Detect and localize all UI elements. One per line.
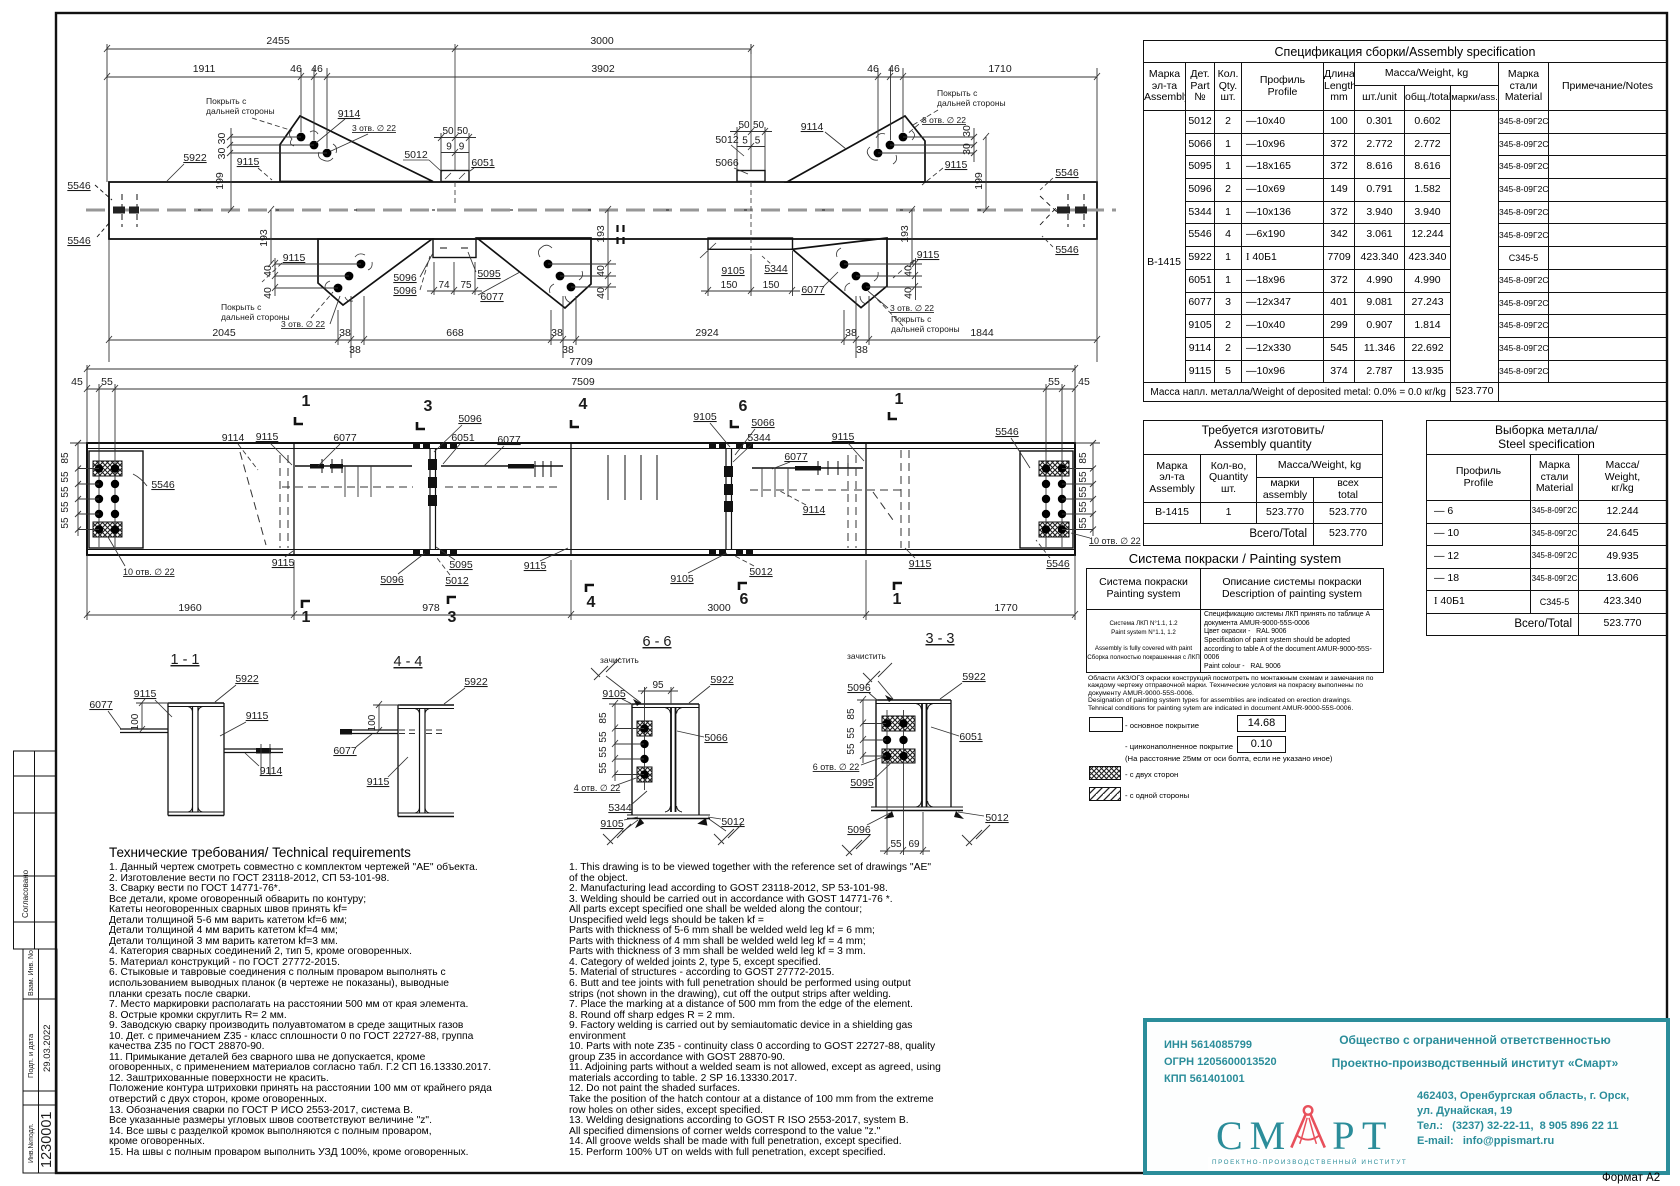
dim 55|69 bottom xyxy=(880,812,930,855)
svg-text:2455: 2455 xyxy=(266,35,290,47)
svg-text:4: 4 xyxy=(579,396,588,413)
svg-text:3: 3 xyxy=(424,398,433,415)
section line thru plate 5012 xyxy=(454,44,456,170)
svg-text:1: 1 xyxy=(895,391,904,408)
svg-text:5096: 5096 xyxy=(393,285,417,297)
right 193 vertical dim xyxy=(911,210,913,264)
bolt pads 6-6 xyxy=(637,721,652,736)
bolt pads 3-3 xyxy=(882,716,915,731)
svg-text:29.03.2022: 29.03.2022 xyxy=(42,1024,53,1072)
leader lines top drawing xyxy=(167,110,1053,326)
zinc coat legend xyxy=(1125,742,1233,751)
painting notes xyxy=(1088,675,1388,712)
svg-text:2924: 2924 xyxy=(695,327,719,339)
svg-text:Покрыть с: Покрыть с xyxy=(221,302,262,312)
svg-text:Покрыть с: Покрыть с xyxy=(206,96,247,106)
lower-center gusset bolts xyxy=(544,260,576,292)
lower-right gusset bolts xyxy=(840,260,871,291)
svg-text:55: 55 xyxy=(1048,376,1060,388)
rib 6077 left xyxy=(340,729,398,731)
svg-text:9105: 9105 xyxy=(693,411,717,423)
svg-text:5012: 5012 xyxy=(404,149,428,161)
text labels top drawing xyxy=(67,88,1079,334)
svg-text:1230001: 1230001 xyxy=(39,1112,55,1168)
short weld ticks crossing rib mid-left xyxy=(345,0,1345,497)
svg-text:6: 6 xyxy=(739,398,748,415)
svg-text:3 - 3: 3 - 3 xyxy=(925,631,954,647)
legend: base coat sample box xyxy=(1089,717,1123,732)
svg-text:9114: 9114 xyxy=(222,432,245,444)
svg-text:5095: 5095 xyxy=(449,559,473,571)
svg-text:40: 40 xyxy=(903,287,915,299)
lower-left gusset bolts xyxy=(334,260,366,293)
rib 6077 plan segment c xyxy=(752,467,863,469)
svg-text:6077: 6077 xyxy=(333,432,357,444)
left end plate 5546 outline xyxy=(89,451,143,548)
svg-text:9115: 9115 xyxy=(917,249,940,261)
svg-text:9105: 9105 xyxy=(600,818,624,830)
right 30/30 vertical dim xyxy=(903,136,974,138)
dimension row2 1911/46/46/3902/46/46/1710 xyxy=(107,76,1097,78)
labels below middle beam xyxy=(272,557,1070,587)
svg-text:75: 75 xyxy=(460,280,472,291)
right bolt pads hatched xyxy=(1039,461,1069,476)
rib 6077 plan segment a xyxy=(295,465,412,467)
svg-text:50: 50 xyxy=(442,126,454,137)
svg-text:55: 55 xyxy=(1078,501,1089,513)
svg-text:38: 38 xyxy=(856,344,868,356)
section body: plate 5344 + I-beam xyxy=(627,704,710,819)
svg-text:5096: 5096 xyxy=(458,413,482,425)
left bolts xyxy=(95,464,119,533)
svg-text:5546: 5546 xyxy=(151,479,175,491)
svg-text:5922: 5922 xyxy=(962,671,986,683)
svg-text:46: 46 xyxy=(888,63,900,75)
section line 1 right xyxy=(865,443,867,555)
bolt hidden ticks mid xyxy=(608,455,657,500)
svg-text:10 отв. ∅ 22: 10 отв. ∅ 22 xyxy=(1089,536,1141,546)
svg-text:6077: 6077 xyxy=(784,451,808,463)
svg-text:55: 55 xyxy=(598,746,609,758)
svg-text:6077: 6077 xyxy=(89,699,113,711)
svg-text:1770: 1770 xyxy=(994,602,1018,614)
left bolt pads hatched xyxy=(93,461,122,476)
svg-text:150: 150 xyxy=(721,280,738,291)
hidden rib dashes xyxy=(399,729,419,731)
svg-text:85: 85 xyxy=(1078,452,1089,464)
svg-text:199: 199 xyxy=(214,172,226,190)
hidden dashed lines plan xyxy=(240,450,909,548)
svg-text:5: 5 xyxy=(742,136,748,147)
svg-text:9115: 9115 xyxy=(367,776,390,788)
black weld dashes on rib b xyxy=(508,464,534,469)
right 40/40 vertical dim xyxy=(844,263,922,265)
left 40/40 vertical dim xyxy=(275,263,361,265)
svg-text:40: 40 xyxy=(595,287,607,299)
bottom arrows 3-3 xyxy=(884,811,894,819)
svg-text:5344: 5344 xyxy=(764,263,788,275)
company name xyxy=(1310,1033,1640,1047)
dim 50|50 over plate 5012 xyxy=(434,133,476,170)
svg-text:9115: 9115 xyxy=(134,688,157,700)
lower-center gusset 6077 xyxy=(477,238,591,308)
svg-text:5066: 5066 xyxy=(715,157,739,169)
address block xyxy=(1417,1089,1629,1149)
dim 95 xyxy=(638,687,678,712)
right bolt dim lines xyxy=(1062,440,1100,536)
section body: plate 5095 + I-beam xyxy=(871,700,963,811)
svg-text:9114: 9114 xyxy=(803,504,826,516)
bottom dim rows of top drawing xyxy=(109,339,1097,341)
left end hidden plate marks xyxy=(95,185,139,237)
svg-text:5546: 5546 xyxy=(1046,558,1070,570)
svg-text:5012: 5012 xyxy=(749,566,773,578)
svg-text:30: 30 xyxy=(961,143,973,155)
svg-text:5012: 5012 xyxy=(721,816,745,828)
left dim labels 85/55 xyxy=(60,452,71,529)
svg-text:6077: 6077 xyxy=(801,284,825,296)
lower-left gusset 6077 xyxy=(318,239,432,305)
Формат А2 xyxy=(1602,1172,1660,1184)
svg-text:9115: 9115 xyxy=(524,560,547,572)
rib 6077 plan segment b xyxy=(441,465,563,467)
СМАРТ logo xyxy=(1216,1112,1496,1159)
svg-text:6: 6 xyxy=(740,591,749,608)
svg-text:55: 55 xyxy=(846,727,857,739)
svg-text:9114: 9114 xyxy=(801,121,824,133)
svg-text:1: 1 xyxy=(302,609,311,626)
leaders middle drawing xyxy=(238,423,1050,575)
upper-left gusset bolts xyxy=(297,133,332,158)
svg-text:Инв.№подл.: Инв.№подл. xyxy=(28,1123,35,1163)
svg-text:5095: 5095 xyxy=(477,268,501,280)
svg-text:6077: 6077 xyxy=(480,291,504,303)
svg-text:дальней стороны: дальней стороны xyxy=(937,98,1006,108)
svg-text:3000: 3000 xyxy=(590,35,614,47)
svg-text:5095: 5095 xyxy=(850,777,874,789)
svg-text:дальней стороны: дальней стороны xyxy=(221,312,290,322)
svg-text:Взам. Инв. No: Взам. Инв. No xyxy=(28,950,35,996)
centerline black dash accents xyxy=(120,209,1090,211)
svg-text:74: 74 xyxy=(438,280,450,291)
svg-text:9115: 9115 xyxy=(256,431,279,443)
svg-text:40: 40 xyxy=(903,265,915,277)
center section line xyxy=(750,44,752,170)
svg-text:50: 50 xyxy=(457,126,469,137)
svg-text:55: 55 xyxy=(101,376,113,388)
svg-text:1911: 1911 xyxy=(193,63,216,75)
labels above middle beam xyxy=(222,411,1019,516)
svg-text:3 отв. ∅ 22: 3 отв. ∅ 22 xyxy=(281,319,325,329)
svg-text:1: 1 xyxy=(302,393,311,410)
svg-text:3 отв. ∅ 22: 3 отв. ∅ 22 xyxy=(890,303,934,313)
weld squiggles around bolts (upper-left) xyxy=(290,130,337,161)
svg-text:38: 38 xyxy=(562,344,574,356)
svg-text:38: 38 xyxy=(551,327,563,339)
svg-text:55: 55 xyxy=(1078,471,1089,483)
svg-text:7509: 7509 xyxy=(571,376,595,388)
center top plate 5066 xyxy=(737,171,765,182)
svg-text:7709: 7709 xyxy=(569,356,593,368)
stiffener pair at section 6 xyxy=(725,448,727,550)
labels 4-4 xyxy=(333,676,488,788)
rib weld ticks a xyxy=(322,459,342,473)
English column xyxy=(569,863,999,1158)
beam band outline xyxy=(109,182,1097,239)
svg-text:95: 95 xyxy=(652,680,664,691)
left 193 vertical dim xyxy=(270,210,272,264)
svg-text:30: 30 xyxy=(961,125,973,137)
labels 1-1 xyxy=(89,673,282,777)
left 199 vertical dim xyxy=(230,153,232,210)
rib 9114 right xyxy=(224,748,283,750)
svg-text:5096: 5096 xyxy=(847,682,871,694)
svg-text:55: 55 xyxy=(60,471,71,483)
lower center plate 5095/5096 xyxy=(433,239,476,258)
section stiffener line 1 left xyxy=(293,443,295,555)
svg-text:978: 978 xyxy=(422,602,440,614)
svg-text:9115: 9115 xyxy=(283,252,306,264)
svg-text:6051: 6051 xyxy=(451,432,475,444)
upper-left gusset 9114 xyxy=(280,116,433,182)
svg-text:9105: 9105 xyxy=(721,265,745,277)
svg-text:9115: 9115 xyxy=(272,557,295,569)
compass icon (letter A) xyxy=(1283,1103,1335,1155)
svg-text:50: 50 xyxy=(738,120,750,131)
svg-text:5096: 5096 xyxy=(380,574,404,586)
label 6051 top drawing xyxy=(470,157,495,171)
svg-text:46: 46 xyxy=(290,63,302,75)
center-left 193 vertical dim + 9115 exts xyxy=(607,210,609,264)
svg-text:5: 5 xyxy=(755,136,761,147)
svg-text:3: 3 xyxy=(448,609,457,626)
company ИНН block xyxy=(1164,1037,1277,1088)
legend: one-side hatch xyxy=(1089,787,1121,801)
svg-text:668: 668 xyxy=(446,327,464,339)
middle drawing dims xyxy=(84,365,1078,620)
dimension row1 2455 xyxy=(107,48,751,50)
svg-text:5922: 5922 xyxy=(464,676,488,688)
dim 74|75 under plate xyxy=(427,262,482,295)
svg-text:9115: 9115 xyxy=(832,431,855,443)
Russian column xyxy=(109,863,579,1158)
label 5012 left xyxy=(403,149,442,172)
svg-text:45: 45 xyxy=(1078,376,1090,388)
svg-text:193: 193 xyxy=(899,225,911,243)
svg-text:Подп. и дата: Подп. и дата xyxy=(26,1033,35,1078)
svg-text:55: 55 xyxy=(60,501,71,513)
svg-text:6077: 6077 xyxy=(497,434,521,446)
left bolt columns xyxy=(98,453,100,547)
svg-text:46: 46 xyxy=(867,63,879,75)
svg-text:9114: 9114 xyxy=(260,765,283,777)
svg-text:5546: 5546 xyxy=(67,235,91,247)
svg-text:100: 100 xyxy=(367,714,378,731)
dimension labels top drawing xyxy=(193,35,1012,356)
svg-text:5012: 5012 xyxy=(715,134,739,146)
svg-text:5546: 5546 xyxy=(1055,167,1079,179)
svg-text:38: 38 xyxy=(349,344,361,356)
svg-text:зачистить: зачистить xyxy=(847,651,886,661)
svg-text:дальней стороны: дальней стороны xyxy=(891,324,960,334)
svg-text:5922: 5922 xyxy=(235,673,259,685)
svg-text:9: 9 xyxy=(459,142,465,153)
svg-text:5096: 5096 xyxy=(847,824,871,836)
beam outline plan xyxy=(87,443,1075,555)
svg-text:6051: 6051 xyxy=(471,157,495,169)
svg-text:1844: 1844 xyxy=(970,327,994,339)
svg-text:3902: 3902 xyxy=(591,63,615,75)
svg-text:199: 199 xyxy=(973,172,985,190)
left 30/30 vertical dim xyxy=(231,136,301,138)
7709 row xyxy=(87,368,1075,370)
svg-text:5546: 5546 xyxy=(67,180,91,192)
upper-right gusset bolts xyxy=(874,133,908,158)
svg-text:6077: 6077 xyxy=(333,745,357,757)
svg-text:9105: 9105 xyxy=(602,688,626,700)
value box 14.68 xyxy=(1237,715,1286,732)
right 199 vertical dim xyxy=(985,137,987,210)
svg-text:Покрыть с: Покрыть с xyxy=(937,88,978,98)
svg-text:9105: 9105 xyxy=(670,573,694,585)
sidebar: lower title block xyxy=(23,949,57,1173)
dim 150|150 xyxy=(701,251,800,296)
svg-text:5546: 5546 xyxy=(995,426,1019,438)
bottom dim row xyxy=(87,614,1075,616)
svg-text:30: 30 xyxy=(216,148,228,160)
B-1415 mark in spec table xyxy=(1143,256,1185,268)
svg-text:150: 150 xyxy=(763,280,780,291)
svg-text:9115: 9115 xyxy=(246,710,269,722)
lower center-right plate 5344/9105 xyxy=(708,238,793,249)
svg-text:2045: 2045 xyxy=(212,327,236,339)
svg-text:9115: 9115 xyxy=(909,558,932,570)
upper-right gusset 9114 xyxy=(787,116,925,182)
bottom arrows 6-6 xyxy=(633,817,645,828)
svg-text:4 отв. ∅ 22: 4 отв. ∅ 22 xyxy=(574,783,621,793)
svg-text:40: 40 xyxy=(595,265,607,277)
right end plate 5546 outline xyxy=(1020,451,1073,548)
right dim labels 85/55 xyxy=(1078,452,1089,529)
right end hidden plate marks xyxy=(1040,194,1087,227)
svg-text:30: 30 xyxy=(216,133,228,145)
logo subtitle strip xyxy=(1208,1157,1404,1170)
svg-text:3 отв. ∅ 22: 3 отв. ∅ 22 xyxy=(352,123,396,133)
svg-text:55: 55 xyxy=(846,743,857,755)
svg-text:40: 40 xyxy=(262,265,274,277)
rib 6077 left xyxy=(120,728,168,730)
svg-text:6051: 6051 xyxy=(959,731,983,743)
teal border box xyxy=(1143,1018,1670,1175)
svg-text:5096: 5096 xyxy=(393,272,417,284)
svg-text:38: 38 xyxy=(845,327,857,339)
sidebar: approval block upper xyxy=(14,751,57,949)
svg-text:55: 55 xyxy=(598,731,609,743)
svg-text:55: 55 xyxy=(598,762,609,774)
svg-text:100: 100 xyxy=(130,713,141,730)
svg-text:5922: 5922 xyxy=(710,674,734,686)
svg-text:5546: 5546 xyxy=(1055,244,1079,256)
svg-text:5344: 5344 xyxy=(608,802,632,814)
hidden stiffener marks mid-span xyxy=(618,225,624,248)
svg-text:9114: 9114 xyxy=(338,108,361,120)
dim col 85/55/55 3-3 xyxy=(857,696,886,763)
svg-text:5066: 5066 xyxy=(704,732,728,744)
dim 100 xyxy=(136,699,170,733)
stiffener pair at section 3 xyxy=(429,448,431,550)
I-beam section xyxy=(398,705,454,817)
inner flange lines xyxy=(87,448,1075,450)
svg-text:9115: 9115 xyxy=(945,159,968,171)
dim 100 xyxy=(373,701,400,734)
lower-right gusset 6077 xyxy=(793,238,888,308)
svg-text:1710: 1710 xyxy=(988,63,1012,75)
section line 4 xyxy=(570,443,572,555)
section marks middle drawing xyxy=(302,391,904,626)
svg-text:50: 50 xyxy=(753,120,765,131)
svg-text:3 отв. ∅ 22: 3 отв. ∅ 22 xyxy=(922,115,966,125)
svg-text:55: 55 xyxy=(1078,517,1089,529)
svg-text:5066: 5066 xyxy=(751,417,775,429)
top plate 5012 (left) xyxy=(441,171,469,182)
svg-text:193: 193 xyxy=(595,225,607,243)
legend: two-sides hatch xyxy=(1089,766,1121,780)
svg-text:1 - 1: 1 - 1 xyxy=(170,652,199,668)
svg-text:5012: 5012 xyxy=(445,575,469,587)
svg-text:55: 55 xyxy=(60,486,71,498)
labels 5012 / 5066 at center xyxy=(715,134,744,156)
labels 6-6 xyxy=(574,674,745,830)
svg-text:38: 38 xyxy=(339,327,351,339)
7509 row xyxy=(87,388,1075,390)
dim col 85/55 6-6 xyxy=(609,700,644,781)
svg-text:4 - 4: 4 - 4 xyxy=(393,654,422,670)
svg-text:Покрыть с: Покрыть с xyxy=(891,314,932,324)
I-beam section xyxy=(168,703,224,816)
svg-text:69: 69 xyxy=(908,839,920,850)
value box 0.10 xyxy=(1237,736,1286,753)
svg-text:зачистить: зачистить xyxy=(600,655,639,665)
svg-text:193: 193 xyxy=(258,229,270,247)
svg-text:85: 85 xyxy=(598,712,609,724)
svg-text:85: 85 xyxy=(846,708,857,720)
svg-text:6 - 6: 6 - 6 xyxy=(642,634,671,650)
svg-text:46: 46 xyxy=(311,63,323,75)
svg-text:40: 40 xyxy=(262,287,274,299)
svg-text:85: 85 xyxy=(60,452,71,464)
svg-text:45: 45 xyxy=(71,376,83,388)
beam centerline grey dashed xyxy=(86,209,1116,212)
svg-text:55: 55 xyxy=(890,839,902,850)
svg-text:1960: 1960 xyxy=(178,602,202,614)
svg-text:55: 55 xyxy=(1078,486,1089,498)
svg-text:6 отв. ∅ 22: 6 отв. ∅ 22 xyxy=(813,762,860,772)
svg-text:9: 9 xyxy=(446,142,452,153)
dim 50|50 over plate 5066 xyxy=(730,127,772,170)
svg-text:10 отв. ∅ 22: 10 отв. ∅ 22 xyxy=(123,567,175,577)
svg-text:дальней стороны: дальней стороны xyxy=(206,106,275,116)
svg-text:3000: 3000 xyxy=(707,602,731,614)
svg-text:5922: 5922 xyxy=(183,152,207,164)
left bolt row dim lines xyxy=(70,440,99,536)
svg-text:4: 4 xyxy=(587,594,596,611)
svg-text:5012: 5012 xyxy=(985,812,1009,824)
weld blobs on stiffener 3 xyxy=(413,444,457,555)
svg-text:9115: 9115 xyxy=(237,156,260,168)
svg-text:1: 1 xyxy=(893,591,902,608)
right bolts xyxy=(1042,464,1066,533)
svg-text:Согласовано: Согласовано xyxy=(21,869,30,918)
